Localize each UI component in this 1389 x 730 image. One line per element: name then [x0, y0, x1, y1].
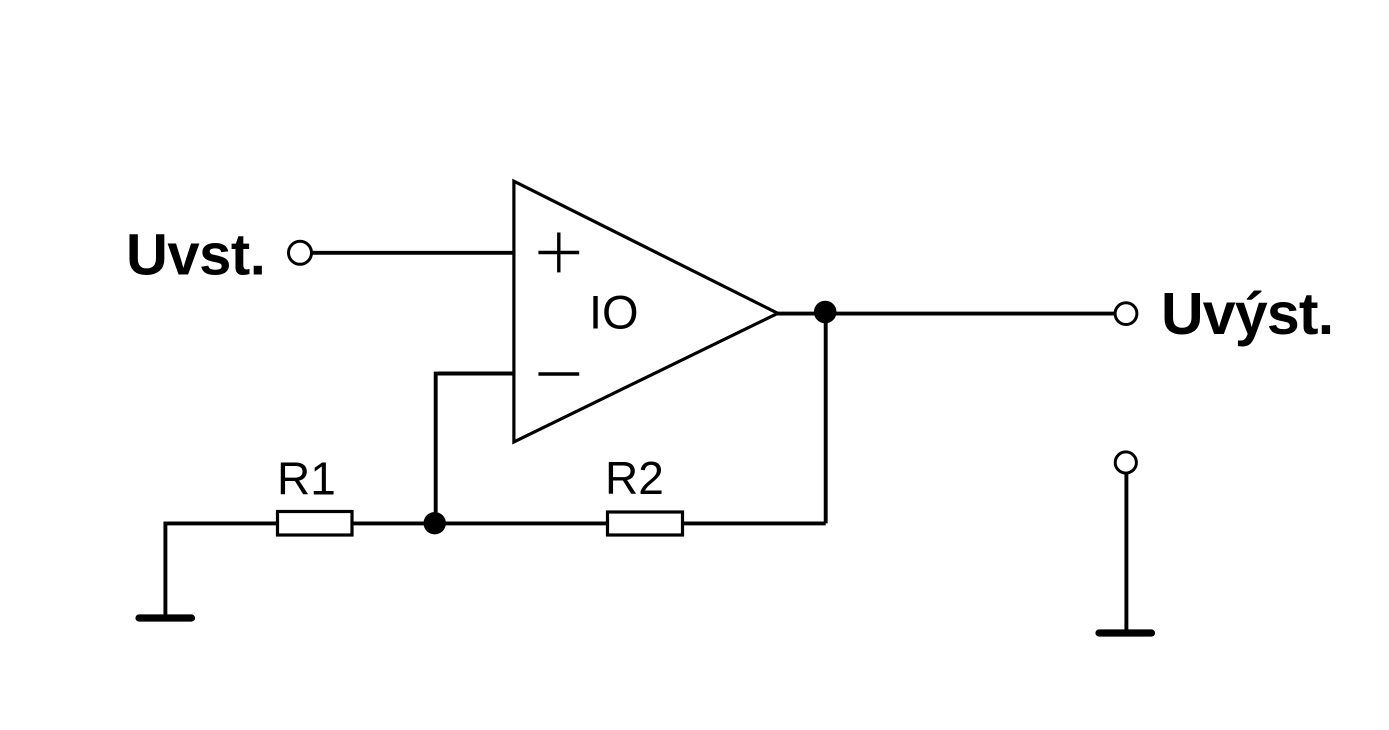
svg-text:Uvýst.: Uvýst.: [1161, 281, 1333, 347]
svg-text:R1: R1: [277, 453, 336, 505]
svg-text:IO: IO: [589, 285, 639, 338]
svg-text:R2: R2: [605, 452, 664, 504]
svg-text:Uvst.: Uvst.: [126, 223, 265, 288]
